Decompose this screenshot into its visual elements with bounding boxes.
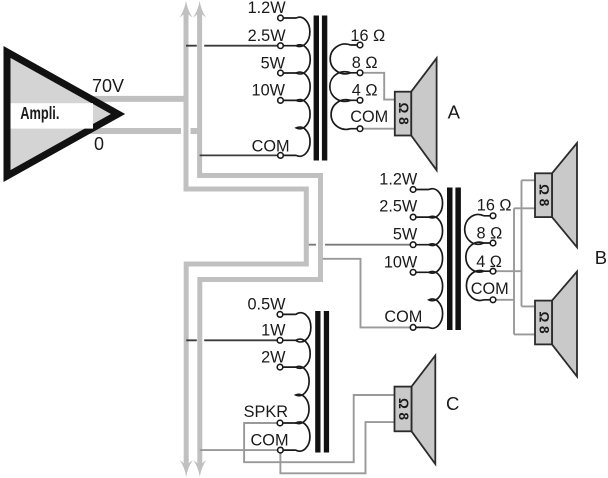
- wire: amplifier 0V output (break at 70V bus crossing): [88, 128, 202, 134]
- transformer A secondary tap terminals: [357, 42, 363, 131]
- wire: 70V staircase to transformer B 5W tap (thin, jumps over 0V bus): [309, 244, 411, 246]
- svg-text:4 Ω: 4 Ω: [352, 82, 378, 100]
- transformer C core: [315, 311, 329, 453]
- wire: transformer B 4ohm tap to speakers B plus terminals: [496, 180, 535, 306]
- wire: 0V bus (right vertical, outer staircase, lower-right vertical): [193, 1, 321, 477]
- svg-text:1.2W: 1.2W: [379, 170, 418, 188]
- svg-text:70V: 70V: [92, 76, 124, 96]
- svg-text:COM: COM: [251, 431, 289, 449]
- speaker B upper (8 ohm): [535, 143, 577, 247]
- svg-text:4 Ω: 4 Ω: [476, 253, 502, 271]
- svg-text:5W: 5W: [261, 54, 286, 72]
- transformer B secondary tap terminals: [490, 213, 496, 303]
- svg-text:Ω 8: Ω 8: [536, 184, 551, 207]
- wire: 0V bus to transformer C COM tap: [200, 449, 278, 451]
- svg-text:8 Ω: 8 Ω: [477, 224, 503, 242]
- wire: amplifier 70V output: [88, 96, 188, 102]
- transformer B primary tap labels: [379, 170, 422, 326]
- svg-text:8 Ω: 8 Ω: [352, 54, 378, 72]
- wire: transformer C COM tap to speaker C bottom terminal: [280, 422, 394, 473]
- transformer A primary winding: [283, 17, 310, 156]
- wire: transformer A 2.5W tap to 70V bus (break at 0V bus): [186, 45, 278, 47]
- transformer A secondary winding: [330, 44, 358, 129]
- transformer B secondary winding: [465, 215, 491, 301]
- svg-text:Ω 8: Ω 8: [536, 311, 551, 334]
- svg-text:16 Ω: 16 Ω: [350, 27, 385, 45]
- svg-text:5W: 5W: [393, 226, 418, 244]
- transformer B core: [447, 188, 461, 331]
- svg-text:Ω 8: Ω 8: [396, 398, 411, 421]
- svg-text:0.5W: 0.5W: [247, 296, 286, 314]
- transformer B secondary tap labels: [471, 196, 512, 298]
- transformer B primary winding: [416, 189, 443, 329]
- wire: 0V staircase to transformer B COM tap (thin): [323, 259, 410, 328]
- svg-text:2.5W: 2.5W: [248, 27, 287, 45]
- svg-text:SPKR: SPKR: [244, 403, 288, 421]
- svg-text:COM: COM: [252, 137, 290, 155]
- svg-text:10W: 10W: [252, 82, 286, 100]
- wire: transformer A 8ohm tap to speaker A top terminal: [363, 73, 395, 100]
- transformer C tap terminals: [277, 312, 283, 453]
- svg-text:0: 0: [94, 134, 104, 154]
- wire: transformer B secondary COM to speakers B minus terminals: [496, 208, 535, 334]
- wire: transformer C SPKR tap to speaker C top terminal: [244, 395, 394, 462]
- svg-text:2.5W: 2.5W: [379, 197, 418, 215]
- wire: 70V bus (left vertical, staircase to B, lower-left vertical): [179, 1, 306, 477]
- speaker C (8 ohm): [395, 356, 436, 465]
- transformer A secondary tap labels: [350, 27, 388, 126]
- speaker A (8 ohm): [395, 58, 437, 170]
- transformer A core: [314, 16, 328, 161]
- transformer B primary tap terminals: [410, 187, 416, 331]
- wire: transformer A COM (secondary) to speaker A bottom terminal: [363, 128, 395, 130]
- speaker B lower (8 ohm): [535, 272, 577, 377]
- svg-text:16 Ω: 16 Ω: [477, 196, 512, 214]
- wire: transformer C 1W tap to 70V bus (break at 0V bus): [186, 339, 277, 341]
- svg-text:2W: 2W: [261, 348, 286, 366]
- svg-text:B: B: [595, 247, 607, 268]
- svg-text:Ω 8: Ω 8: [396, 103, 411, 126]
- transformer A primary tap labels: [248, 0, 290, 155]
- svg-text:1W: 1W: [261, 322, 286, 340]
- svg-text:COM: COM: [384, 308, 422, 326]
- svg-text:C: C: [446, 393, 459, 414]
- svg-text:Ampli.: Ampli.: [20, 103, 59, 123]
- svg-text:A: A: [448, 101, 461, 122]
- amplifier Ampli.: [7, 52, 118, 176]
- svg-text:1.2W: 1.2W: [248, 0, 287, 17]
- wire: transformer A COM tap to 0V bus: [200, 154, 278, 156]
- transformer A primary tap terminals: [278, 15, 284, 158]
- svg-text:COM: COM: [471, 280, 509, 298]
- svg-text:10W: 10W: [384, 253, 418, 271]
- transformer C tap labels: [244, 296, 289, 450]
- svg-text:COM: COM: [350, 108, 388, 126]
- transformer C winding: [283, 313, 311, 451]
